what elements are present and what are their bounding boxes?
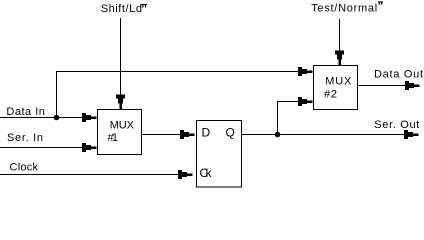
svg-text:#2: #2: [324, 88, 337, 100]
svg-text:Clock: Clock: [10, 162, 39, 174]
svg-text:Q: Q: [226, 125, 235, 139]
svg-text:Shift/Ld: Shift/Ld: [101, 3, 142, 15]
svg-text:Ser. Out: Ser. Out: [374, 119, 419, 131]
svg-text:Ser. In: Ser. In: [7, 132, 43, 144]
svg-text:MUX: MUX: [110, 120, 135, 132]
svg-text:#1: #1: [108, 132, 119, 144]
svg-text:Data Out: Data Out: [374, 69, 423, 81]
svg-text:Data In: Data In: [6, 106, 45, 118]
svg-text:Test/Normal: Test/Normal: [311, 2, 377, 14]
svg-text:D: D: [202, 125, 211, 139]
svg-text:MUX: MUX: [325, 75, 352, 87]
svg-text:Ck: Ck: [200, 166, 213, 180]
